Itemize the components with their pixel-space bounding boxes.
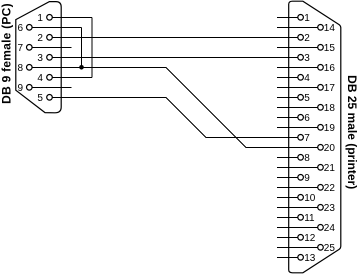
wire: J2 pin 13 stub	[277, 256, 297, 258]
J1 pin 5	[47, 95, 53, 101]
J2 pin 24	[318, 225, 324, 231]
svg-text:1: 1	[37, 13, 43, 24]
J2 pin 21	[318, 165, 324, 171]
wire: J2 pin 15 stub	[277, 46, 317, 48]
svg-text:15: 15	[324, 43, 336, 54]
svg-text:4: 4	[37, 73, 43, 84]
J2 pin 2	[298, 35, 304, 41]
wire: J1 pin 8 to J2 pin 20	[32, 67, 317, 147]
J2 pin 9	[298, 175, 304, 181]
wire: J2 pin 1 stub	[277, 16, 297, 18]
J2 pin 7	[298, 135, 304, 141]
wire: J1 pin 2 to J2 pin 2	[53, 36, 298, 38]
svg-text:9: 9	[304, 173, 310, 184]
J2 pin 14	[318, 25, 324, 31]
svg-text:14: 14	[324, 23, 336, 34]
J2 pin 17	[318, 85, 324, 91]
J2 pin 13	[298, 254, 304, 260]
J2 pin 15	[318, 45, 324, 51]
J2 pin 1	[298, 14, 304, 20]
wire: link J1 pin6 to J1 pin8 (vertical)	[81, 27, 83, 67]
wire: J2 pin 24 stub	[277, 226, 317, 228]
svg-text:2: 2	[304, 33, 310, 44]
wire: J2 pin 17 stub	[277, 86, 317, 88]
J1 pin 9	[27, 85, 33, 91]
svg-text:7: 7	[18, 43, 24, 54]
svg-text:11: 11	[304, 213, 315, 224]
wire: J2 pin 22 stub	[277, 186, 317, 188]
svg-text:22: 22	[324, 183, 336, 194]
svg-text:DB 9 female (PC): DB 9 female (PC)	[0, 3, 14, 104]
wire: J2 pin 16 stub	[277, 66, 317, 68]
J2 pin 8	[298, 155, 304, 161]
svg-text:19: 19	[324, 123, 336, 134]
svg-text:5: 5	[37, 93, 43, 104]
J1 pin 4	[47, 75, 53, 81]
J2 pin 19	[318, 125, 324, 131]
svg-text:7: 7	[304, 133, 310, 144]
wire: link J1 pin1 to J1 pin4 (vertical)	[91, 17, 93, 77]
svg-text:6: 6	[18, 23, 24, 34]
svg-text:4: 4	[304, 73, 310, 84]
svg-text:24: 24	[324, 223, 336, 234]
wire: J2 pin 25 stub	[277, 246, 317, 248]
svg-text:13: 13	[304, 253, 316, 264]
wire: J2 pin 21 stub	[277, 166, 317, 168]
svg-text:20: 20	[324, 143, 336, 154]
svg-text:10: 10	[304, 193, 316, 204]
wire: J1 pin 4 lead to link	[53, 76, 92, 78]
J2 pin 18	[318, 105, 324, 111]
wire: J2 pin 5 stub	[277, 96, 297, 98]
wire: J2 pin 6 stub	[277, 116, 297, 118]
svg-text:6: 6	[304, 113, 310, 124]
wire: J2 pin 12 stub	[277, 236, 297, 238]
svg-text:8: 8	[18, 63, 24, 74]
J2 pin 3	[298, 55, 304, 61]
J2 pin 16	[318, 65, 324, 71]
svg-text:25: 25	[324, 243, 336, 254]
wire: J1 pin 5 to J2 pin 7	[53, 97, 298, 137]
J2 pin 5	[298, 95, 304, 101]
wire: J2 pin 4 stub	[277, 76, 297, 78]
wire: J2 pin 9 stub	[277, 176, 297, 178]
svg-text:23: 23	[324, 203, 336, 214]
svg-text:21: 21	[324, 163, 336, 174]
J2 pin 23	[318, 205, 324, 211]
J2 pin 20	[318, 145, 324, 151]
J1 pin 1	[47, 14, 53, 20]
J1 pin 2	[47, 35, 53, 41]
svg-text:5: 5	[304, 93, 310, 104]
J1 pin 7	[27, 45, 33, 51]
wire: J2 pin 14 stub	[277, 26, 317, 28]
J1 pin 3	[47, 55, 53, 61]
svg-text:17: 17	[324, 83, 336, 94]
svg-text:8: 8	[304, 153, 310, 164]
svg-text:2: 2	[37, 33, 43, 44]
svg-text:3: 3	[37, 53, 43, 64]
svg-text:3: 3	[304, 53, 310, 64]
J2 pin 22	[318, 185, 324, 191]
wire: J2 pin 11 stub	[277, 216, 297, 218]
svg-text:9: 9	[18, 83, 24, 94]
connector J2 body: DB 25 male (printer)	[289, 1, 341, 273]
J2 pin 12	[298, 235, 304, 241]
svg-text:1: 1	[304, 13, 310, 24]
wire: J2 pin 23 stub	[277, 206, 317, 208]
J1 pin 8	[27, 65, 33, 71]
wire: J2 pin 19 stub	[277, 126, 317, 128]
junction: J1 pin6/pin8 tie	[79, 65, 84, 70]
wire: J1 pin 9 stub	[32, 86, 71, 88]
wire: J1 pin 3 to J2 pin 3	[53, 56, 298, 58]
J2 pin 10	[298, 195, 304, 201]
wire: J1 pin 7 stub	[32, 46, 71, 48]
svg-text:16: 16	[324, 63, 336, 74]
svg-text:12: 12	[304, 233, 316, 244]
connector J1 body: DB 9 female (PC)	[16, 2, 61, 113]
J2 pin 11	[298, 215, 304, 221]
J2 pin 25	[318, 245, 324, 251]
J2 pin 6	[298, 115, 304, 121]
J2 pin 4	[298, 75, 304, 81]
wire: J1 pin 6 lead to link	[32, 26, 81, 28]
wire: J1 pin 1 lead to link	[53, 16, 92, 18]
J1 pin 6	[27, 25, 33, 31]
wire: J2 pin 10 stub	[277, 196, 297, 198]
wire: J2 pin 18 stub	[277, 106, 317, 108]
svg-text:DB 25 male (printer): DB 25 male (printer)	[345, 75, 358, 189]
svg-text:18: 18	[324, 103, 336, 114]
wire: J2 pin 8 stub	[277, 156, 297, 158]
